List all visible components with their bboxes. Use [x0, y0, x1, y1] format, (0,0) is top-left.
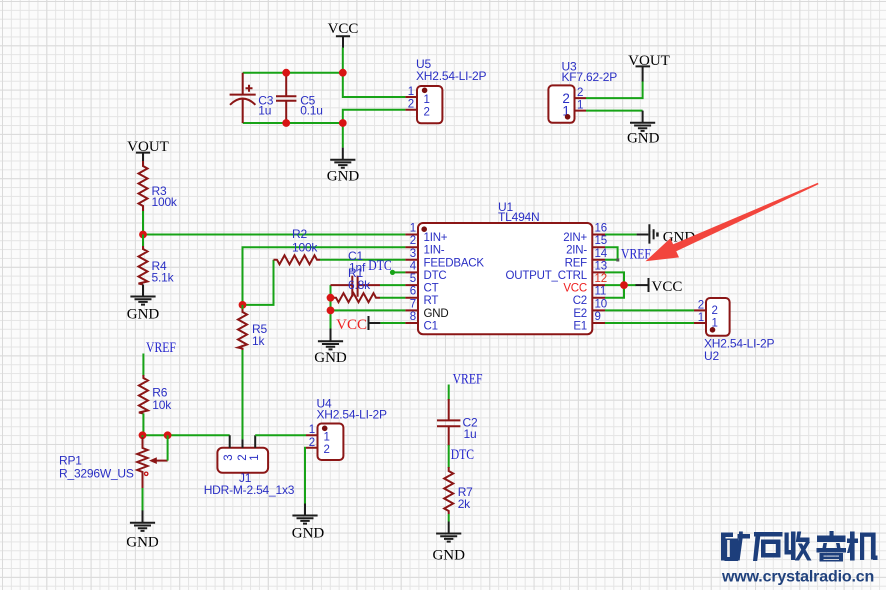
- wire R3 to node: [142, 211, 144, 235]
- svg-text:GND: GND: [127, 307, 160, 323]
- connector U5: [405, 57, 486, 123]
- svg-text:16: 16: [595, 223, 607, 235]
- svg-text:2: 2: [309, 437, 315, 449]
- ground (U4): [292, 504, 325, 542]
- svg-text:VCC: VCC: [336, 317, 367, 333]
- svg-text:E1: E1: [573, 321, 587, 333]
- wire U4 pin2 to GND: [305, 448, 306, 504]
- ground (below C3/C5): [327, 148, 360, 185]
- svg-text:OUTPUT_CTRL: OUTPUT_CTRL: [505, 270, 587, 282]
- svg-text:RT: RT: [424, 295, 439, 307]
- ground (R4): [127, 285, 160, 323]
- resistor R6: [139, 375, 172, 414]
- wire node to U1 pin1: [143, 234, 405, 236]
- wire VCC rail down to U5 pin1: [343, 73, 406, 97]
- wire U1 pin12 to VCC: [605, 284, 636, 286]
- svg-text:2: 2: [324, 444, 330, 456]
- capacitor C5: [276, 73, 323, 123]
- svg-text:GND: GND: [314, 350, 347, 366]
- svg-text:1: 1: [577, 100, 583, 112]
- wire J1 pin1 to U4 pin1: [255, 434, 306, 436]
- op-amp U1 TL494N: [405, 200, 607, 334]
- junction pin7 node: [327, 307, 335, 315]
- annotation red arrow: [671, 183, 818, 252]
- svg-text:100k: 100k: [152, 195, 178, 209]
- svg-text:1IN-: 1IN-: [424, 245, 445, 257]
- svg-text:0.1u: 0.1u: [300, 104, 323, 118]
- svg-text:5: 5: [410, 273, 416, 285]
- svg-text:1: 1: [410, 223, 416, 235]
- svg-text:5.1k: 5.1k: [152, 271, 175, 285]
- svg-text:1u: 1u: [464, 427, 477, 441]
- svg-text:REF: REF: [565, 257, 588, 269]
- svg-text:VREF: VREF: [146, 339, 176, 356]
- wire node to J1 pin3: [143, 434, 230, 436]
- connector U3: [548, 60, 617, 123]
- junction wiper node: [164, 431, 172, 439]
- resistor R7: [444, 467, 473, 514]
- svg-text:2k: 2k: [458, 497, 471, 511]
- svg-text:9: 9: [595, 311, 601, 323]
- wire VREF to C2: [448, 385, 450, 401]
- svg-text:10: 10: [595, 298, 607, 310]
- resistor R1: [331, 266, 381, 302]
- capacitor C1: [331, 249, 381, 297]
- svg-text:2: 2: [424, 106, 430, 118]
- wire R2 to U1 pin3: [320, 259, 405, 261]
- svg-text:2: 2: [410, 235, 416, 247]
- junction pin12: [620, 281, 628, 289]
- svg-text:GND: GND: [126, 535, 159, 551]
- svg-text:6: 6: [410, 286, 416, 298]
- capacitor C3: [230, 73, 274, 123]
- junction dots top rails: [282, 69, 346, 127]
- wire VREF bracket pins 15-14: [605, 247, 618, 260]
- svg-text:3: 3: [223, 454, 235, 460]
- svg-text:GND: GND: [292, 526, 325, 542]
- wire RP1 to GND: [142, 488, 144, 511]
- resistor R3: [139, 161, 178, 211]
- watermark 矿石收音机: [721, 531, 878, 562]
- ground (R7): [432, 522, 465, 564]
- svg-text:11: 11: [595, 286, 607, 298]
- svg-text:VREF: VREF: [453, 370, 483, 387]
- potentiometer RP1: [59, 435, 168, 488]
- connector J1: [204, 435, 295, 497]
- wire R2 left leg: [243, 260, 274, 305]
- svg-text:1IN+: 1IN+: [424, 232, 448, 244]
- power VCC (top): [328, 21, 359, 48]
- svg-text:R_3296W_US: R_3296W_US: [59, 467, 134, 481]
- svg-text:4: 4: [410, 260, 417, 272]
- svg-text:R2: R2: [292, 227, 307, 241]
- resistor R4: [139, 235, 175, 285]
- svg-text:2IN-: 2IN-: [566, 245, 587, 257]
- wire VCC to U1 pin8: [380, 322, 405, 324]
- wire C1 to U1 pin5: [380, 284, 405, 286]
- svg-text:GND: GND: [327, 169, 360, 185]
- ground (pin16, sideways): [637, 224, 696, 245]
- svg-text:2IN+: 2IN+: [563, 232, 587, 244]
- svg-text:C2: C2: [573, 295, 587, 307]
- svg-text:C1: C1: [424, 321, 438, 333]
- svg-text:KF7.62-2P: KF7.62-2P: [562, 70, 618, 84]
- svg-text:XH2.54-LI-2P: XH2.54-LI-2P: [416, 69, 486, 83]
- svg-text:7: 7: [410, 298, 416, 310]
- svg-text:U2: U2: [704, 349, 719, 363]
- power VOUT (U3): [628, 53, 670, 82]
- svg-text:VCC: VCC: [652, 279, 683, 295]
- wire U1 pin7 to GND rail: [331, 310, 406, 329]
- wire U1 pin9 to U2: [605, 322, 694, 324]
- wire U3 pin2 to VOUT: [586, 81, 643, 98]
- power VCC (U1 pin8): [336, 316, 380, 333]
- svg-text:6.8k: 6.8k: [348, 278, 371, 292]
- svg-text:HDR-M-2.54_1x3: HDR-M-2.54_1x3: [204, 483, 295, 497]
- wire U1 pin2 to divider node: [243, 247, 406, 305]
- svg-text:XH2.54-LI-2P: XH2.54-LI-2P: [317, 408, 387, 422]
- ground (C1/R1): [314, 329, 347, 367]
- wire VCC stem to rail: [342, 48, 344, 73]
- junction node R3/R4: [139, 231, 147, 239]
- wire VREF to R6: [142, 354, 144, 377]
- svg-text:2: 2: [698, 299, 704, 311]
- power VCC (pin12): [649, 278, 683, 295]
- svg-text:DTC: DTC: [368, 257, 391, 274]
- wire R6 to node: [142, 414, 144, 436]
- wire U5 pin2 to GND: [343, 110, 406, 148]
- svg-text:1u: 1u: [258, 104, 271, 118]
- svg-text:1: 1: [309, 424, 315, 436]
- svg-text:3: 3: [410, 248, 416, 260]
- junction node VREF divider: [139, 431, 147, 439]
- svg-text:1: 1: [324, 432, 330, 444]
- svg-text:8: 8: [410, 311, 416, 323]
- wire C2 to R7, net label DTC: [448, 445, 450, 468]
- svg-text:2: 2: [408, 99, 414, 111]
- wire U3 pin1 to GND: [586, 110, 643, 112]
- wire R1 to U1 pin6: [380, 297, 405, 299]
- wire U1 pin10 to U2: [605, 309, 694, 311]
- svg-text:1k: 1k: [252, 334, 265, 348]
- svg-text:1: 1: [698, 312, 704, 324]
- svg-text:2: 2: [237, 454, 249, 460]
- svg-text:1: 1: [408, 86, 414, 98]
- resistor R2: [274, 227, 321, 264]
- ground (U3): [627, 111, 660, 147]
- svg-text:14: 14: [595, 248, 608, 260]
- wire U1 pin16 to GND: [605, 234, 637, 236]
- svg-text:FEEDBACK: FEEDBACK: [424, 257, 485, 269]
- svg-text:VREF: VREF: [621, 245, 651, 262]
- svg-text:VCC: VCC: [563, 283, 587, 295]
- svg-text:DTC: DTC: [451, 446, 474, 463]
- connector U4: [306, 397, 387, 461]
- svg-text:12: 12: [595, 273, 607, 285]
- svg-text:1: 1: [249, 454, 261, 460]
- svg-text:E2: E2: [573, 308, 587, 320]
- node DTC stub on U1 pin4: [368, 257, 405, 275]
- svg-text:13: 13: [595, 260, 607, 272]
- ground (RP1): [126, 510, 159, 550]
- svg-text:2: 2: [577, 87, 583, 99]
- svg-text:1: 1: [424, 94, 430, 106]
- svg-text:CT: CT: [424, 283, 439, 295]
- wire R5 down to J1 pin2: [242, 305, 244, 439]
- junction node divider: [239, 301, 247, 309]
- connector U2: [694, 298, 774, 363]
- svg-text:GND: GND: [432, 548, 465, 564]
- svg-text:www.crystalradio.cn: www.crystalradio.cn: [721, 569, 874, 586]
- junction R1 node: [327, 294, 335, 302]
- svg-text:GND: GND: [627, 130, 660, 146]
- wire C1 net vertical: [330, 285, 332, 310]
- svg-text:TL494N: TL494N: [498, 210, 540, 224]
- svg-text:DTC: DTC: [424, 270, 447, 282]
- svg-text:15: 15: [595, 235, 607, 247]
- svg-text:RP1: RP1: [59, 454, 82, 468]
- wire R7 to GND: [448, 514, 450, 522]
- svg-text:GND: GND: [424, 308, 449, 320]
- svg-text:2: 2: [712, 305, 718, 317]
- wire top rail C3-C5-VCC: [243, 72, 343, 74]
- wire VCC bracket pins 13-11: [605, 272, 624, 297]
- wire bottom rail C3-C5: [243, 122, 343, 124]
- capacitor C2: [437, 399, 478, 446]
- svg-text:10k: 10k: [152, 398, 172, 412]
- resistor R5: [238, 309, 267, 350]
- svg-text:100k: 100k: [292, 241, 318, 255]
- power VOUT (left, R3): [127, 139, 169, 164]
- svg-text:VCC: VCC: [328, 21, 359, 37]
